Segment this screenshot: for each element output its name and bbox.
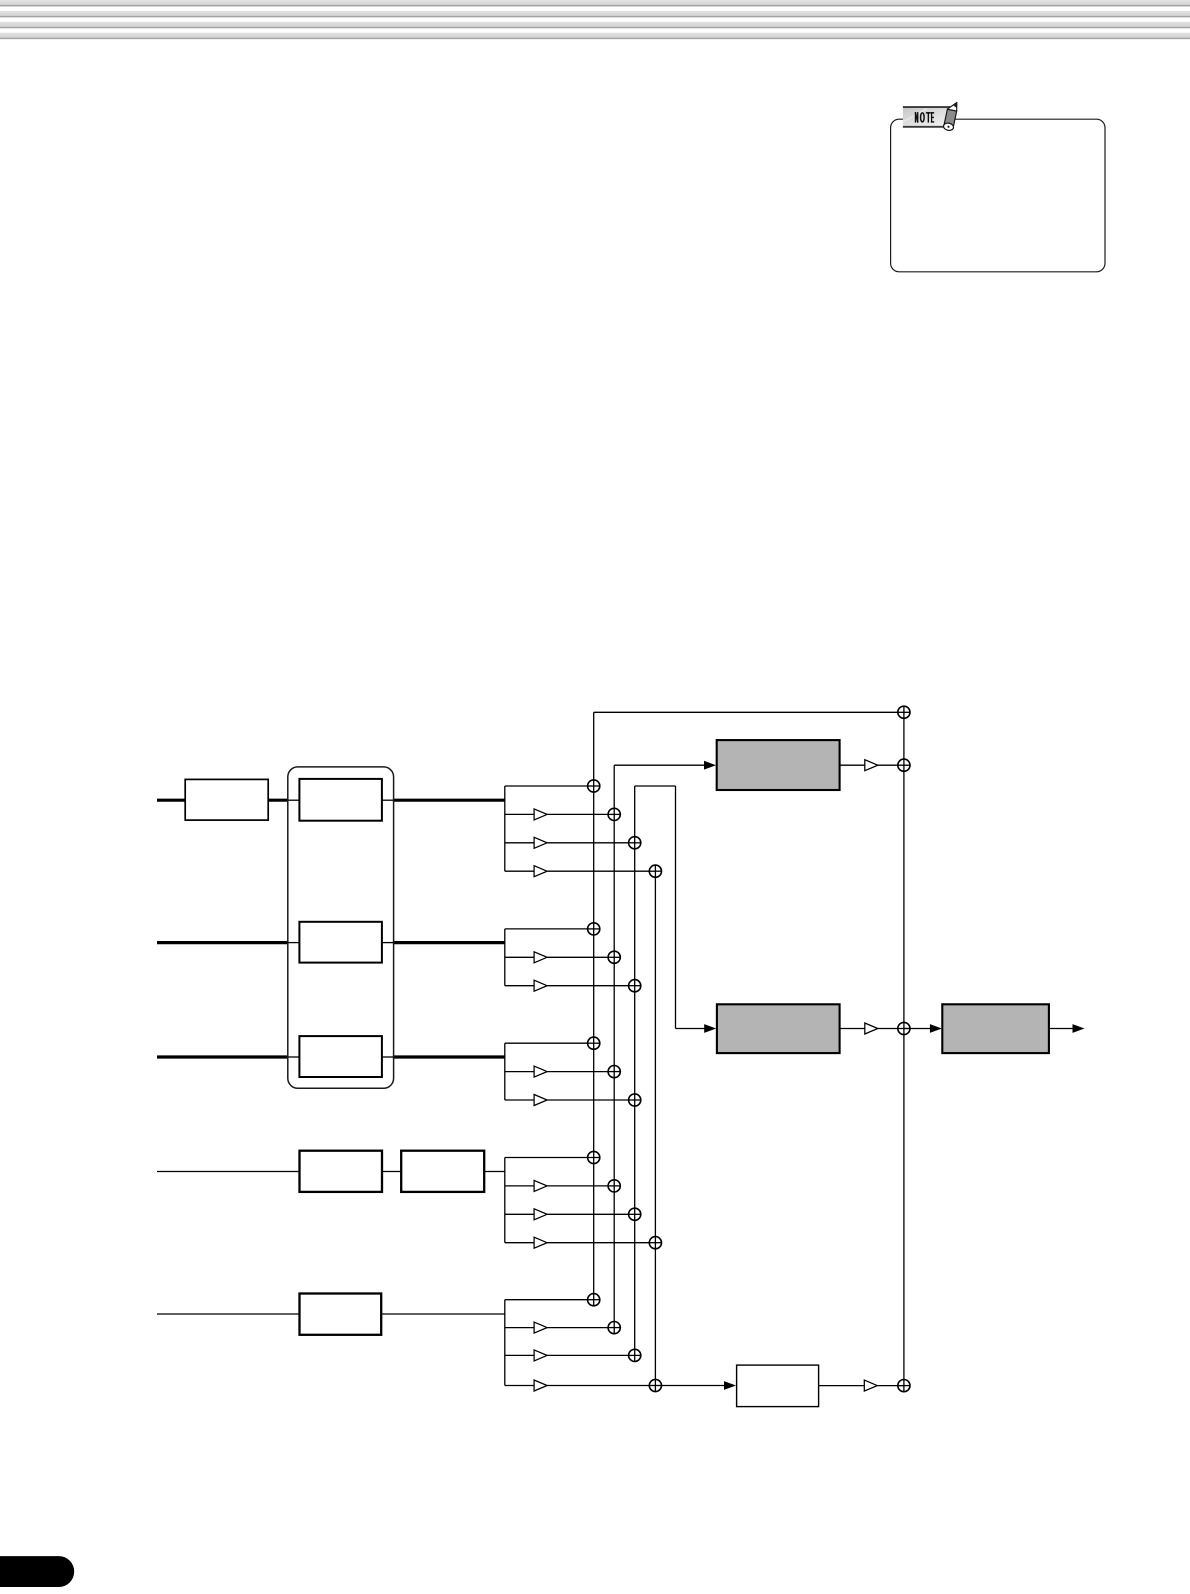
amp row3 branch3 (534, 1095, 547, 1106)
page number tab (0, 1556, 74, 1587)
NOTE callout box (891, 119, 1105, 272)
wire row5 branch2 (505, 1327, 614, 1329)
mixer row3-1 (588, 1037, 600, 1049)
mixer row4-1 (588, 1151, 600, 1163)
bus 1 vertical (593, 712, 595, 1299)
wire row1 A to group (268, 799, 288, 802)
amp row2 branch3 (534, 980, 547, 991)
mixer MR4 bottom (898, 1380, 910, 1392)
box B1 (299, 779, 382, 821)
wire row1 group to fan (393, 799, 505, 802)
amp row4 branch3 (534, 1209, 547, 1220)
box E (300, 1294, 382, 1335)
mixer row2-3 (629, 980, 641, 992)
fan row3 vertical (504, 1043, 506, 1100)
wire bus3 top to downpipe (635, 785, 676, 787)
wire row1 input (157, 799, 185, 802)
wire row5 input (157, 1313, 300, 1315)
wire bus2 to G1 with arrow (614, 764, 705, 766)
wire row5 branch4 (505, 1385, 656, 1387)
right bus vertical (903, 712, 905, 1385)
fan row4 vertical (504, 1158, 506, 1243)
amp after F (864, 1380, 877, 1391)
wire G3 output arrow (1049, 1028, 1074, 1030)
gray box G1 (717, 740, 840, 790)
fan row5 vertical (504, 1300, 506, 1386)
wire row3 group to fan (393, 1055, 505, 1058)
NOTE pencil icon (943, 101, 959, 132)
wire row1 B1 to group edge (382, 799, 394, 801)
wire row4 branch2 (505, 1185, 614, 1187)
wire row1 branch2 (505, 813, 614, 815)
mixer row1-4 (649, 865, 661, 877)
wire row2 branch3 (505, 985, 635, 987)
wire amp to mixer MR2 (878, 764, 904, 766)
wire row2 branch1 (505, 928, 594, 930)
wire row4 branch1 (505, 1157, 594, 1159)
wire row2 branch2 (505, 956, 614, 958)
header stripes (0, 0, 1190, 39)
mixer row2-1 (588, 923, 600, 935)
wire row1 branch1 (505, 785, 594, 787)
box B3 (299, 1036, 382, 1077)
box B2 (299, 922, 382, 963)
wire row3 input (157, 1055, 289, 1058)
mixer MR3 (898, 1022, 910, 1034)
mixer MR1 top (898, 706, 910, 718)
amp after G2 (865, 1023, 878, 1034)
amp row5 branch4 (534, 1380, 547, 1391)
wire row3 branch3 (505, 1099, 635, 1101)
mixer row4-3 (629, 1208, 641, 1220)
mixer row2-2 (608, 951, 620, 963)
amp row1 branch2 (534, 809, 547, 820)
amp row1 branch3 (534, 837, 547, 848)
wire bus4 to F with arrow (655, 1385, 726, 1387)
wire row3 B3 to group edge (382, 1056, 394, 1058)
wire amp to mixer MR3 (878, 1028, 904, 1030)
bus 3 vertical (634, 786, 636, 1355)
wire row4 D to fan (484, 1171, 505, 1173)
gray box G2 (717, 1004, 840, 1053)
mixer row3-3 (629, 1094, 641, 1106)
mixer row5-4 (649, 1379, 661, 1391)
bus 4 vertical (654, 871, 656, 1385)
wire row5 branch1 (505, 1299, 594, 1301)
box C (300, 1151, 383, 1192)
wire row3 branch2 (505, 1071, 614, 1073)
group frame around B1 B2 B3 (288, 767, 394, 1088)
wire row1 branch4 (505, 870, 656, 872)
mixer row5-1 (588, 1294, 600, 1306)
NOTE tag banner (903, 106, 951, 128)
mixer row4-4 (649, 1237, 661, 1249)
mixer row1-3 (629, 837, 641, 849)
wire row4 C to D (382, 1171, 401, 1173)
wire row2 input (157, 941, 289, 944)
NOTE label (915, 112, 934, 123)
wire row2 group to fan (393, 941, 505, 944)
wire G1 out (840, 764, 865, 766)
amp row4 branch4 (534, 1237, 547, 1248)
wire row4 branch3 (505, 1213, 635, 1215)
mixer row3-2 (608, 1066, 620, 1078)
box F (737, 1365, 819, 1407)
wire downpipe to G2 with arrow (676, 1028, 706, 1030)
amp after G1 (865, 760, 878, 771)
wire MR3 to G3 with arrow (904, 1028, 932, 1030)
wire F out (819, 1385, 865, 1387)
mixer row5-3 (629, 1349, 641, 1361)
wire amp to MR4 (877, 1385, 904, 1387)
gray box G3 (942, 1004, 1049, 1053)
amp row5 branch3 (534, 1350, 547, 1361)
wire row1 branch3 (505, 842, 635, 844)
mixer row1-1 (588, 780, 600, 792)
amp row4 branch2 (534, 1180, 547, 1191)
fan row2 vertical (504, 929, 506, 986)
box D (401, 1151, 484, 1192)
amp row2 branch2 (534, 952, 547, 963)
wire row3 group to B3 (288, 1056, 300, 1058)
wire bus1 top to mixer M-top (594, 711, 904, 713)
box A (row1 pre block) (185, 779, 268, 820)
wire row4 input (157, 1171, 300, 1173)
bus 2 vertical (613, 765, 615, 1327)
wire row3 branch1 (505, 1042, 594, 1044)
wire G2 out (840, 1028, 865, 1030)
amp row3 branch2 (534, 1066, 547, 1077)
wire row4 branch4 (505, 1242, 656, 1244)
wire row5 branch3 (505, 1354, 635, 1356)
wire row1 group to B1 (288, 799, 300, 801)
mixer row5-2 (608, 1322, 620, 1334)
downpipe vertical (675, 786, 677, 1029)
wire row2 group to B2 (288, 942, 300, 944)
fan row1 vertical (504, 786, 506, 871)
wire row2 B2 to group edge (382, 942, 394, 944)
wire row5 E to fan (381, 1313, 505, 1315)
mixer row4-2 (608, 1180, 620, 1192)
amp row1 branch4 (534, 866, 547, 877)
mixer MR2 (898, 759, 910, 771)
mixer row1-2 (608, 808, 620, 820)
amp row5 branch2 (534, 1322, 547, 1333)
